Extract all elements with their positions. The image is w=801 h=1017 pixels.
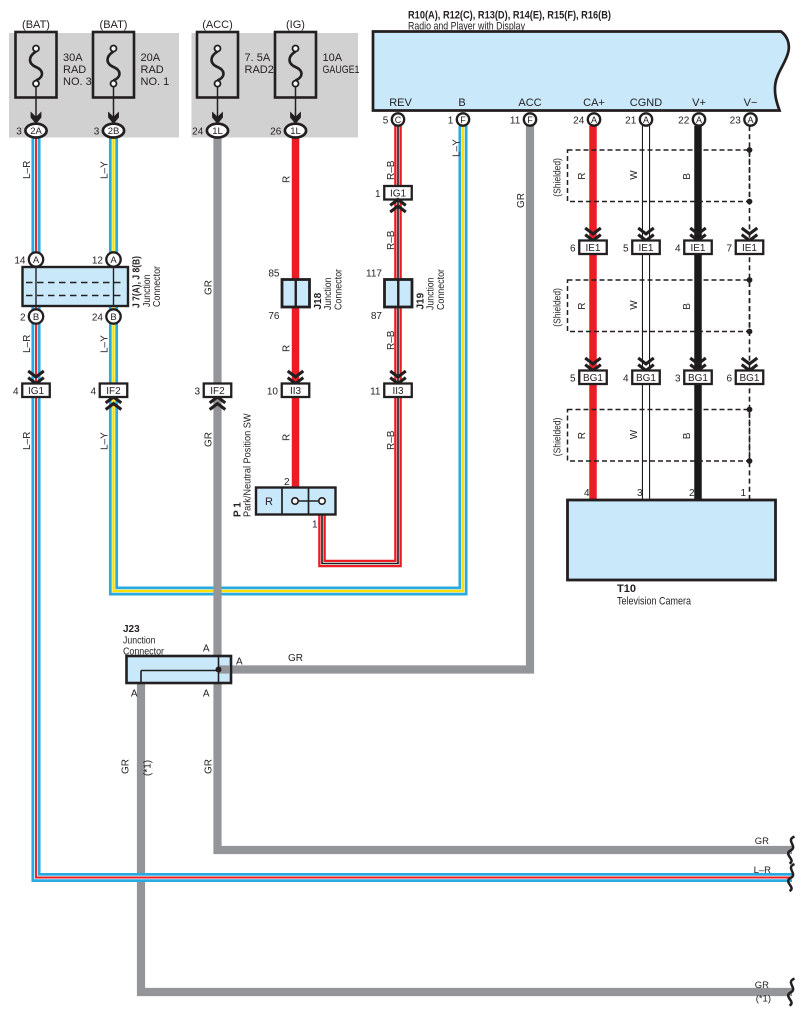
component R10 Radio and Player with Display [373, 32, 789, 111]
wire W shielded CGND to camera pin 3 [642, 126, 650, 501]
svg-text:A: A [643, 115, 649, 125]
svg-text:(BAT): (BAT) [22, 19, 50, 31]
svg-text:R: R [577, 432, 588, 439]
svg-text:(*1): (*1) [143, 760, 154, 776]
svg-text:3: 3 [94, 126, 100, 137]
wire L-Y from fuse 2B to radio pin B [114, 126, 464, 591]
svg-text:L–Y: L–Y [452, 139, 463, 157]
connector 3 BG1 [690, 358, 706, 364]
svg-text:5: 5 [623, 243, 629, 254]
svg-text:L–Y: L–Y [100, 432, 111, 450]
svg-text:Television Camera: Television Camera [617, 596, 692, 608]
svg-text:R: R [282, 434, 293, 441]
svg-text:Junction: Junction [123, 636, 156, 647]
svg-text:21: 21 [625, 116, 637, 127]
svg-text:6: 6 [726, 373, 732, 384]
svg-text:A: A [33, 255, 40, 266]
svg-text:B: B [458, 97, 465, 109]
svg-text:Radio and Player with Display: Radio and Player with Display [408, 20, 525, 32]
svg-text:B: B [110, 312, 116, 323]
connector 4 IF2 [106, 404, 122, 410]
svg-text:F: F [527, 115, 533, 125]
node junction dot J23 [216, 667, 222, 673]
connector 6 BG1 [742, 358, 758, 364]
svg-text:GR: GR [288, 653, 303, 664]
svg-text:3: 3 [194, 386, 200, 397]
shield box 2 [568, 280, 750, 332]
svg-text:30A: 30A [63, 52, 83, 64]
svg-text:14: 14 [14, 255, 26, 266]
wire fuse output arrow [295, 87, 297, 118]
svg-text:W: W [629, 170, 640, 180]
svg-text:II3: II3 [392, 386, 404, 397]
svg-text:IE1: IE1 [742, 243, 757, 254]
svg-text:R: R [577, 303, 588, 310]
svg-text:2A: 2A [30, 126, 42, 137]
pin 12 (A) of J7 [106, 252, 120, 266]
svg-text:(Shielded): (Shielded) [553, 418, 564, 457]
svg-text:A: A [203, 689, 210, 700]
connector 4 IG1 [28, 371, 44, 377]
fuse 7. 5A RAD2 [197, 32, 238, 98]
harness continuation squiggle GR [788, 837, 794, 864]
svg-text:1L: 1L [212, 126, 223, 137]
svg-text:IE1: IE1 [638, 243, 653, 254]
svg-text:3: 3 [637, 488, 643, 499]
svg-text:T10: T10 [617, 583, 636, 595]
svg-text:(IG): (IG) [286, 19, 305, 31]
svg-text:5: 5 [570, 373, 576, 384]
wire fuse output arrow [35, 87, 37, 118]
fuse panel background right [192, 33, 359, 138]
svg-text:24: 24 [573, 116, 585, 127]
svg-text:117: 117 [366, 268, 382, 279]
svg-text:A: A [203, 644, 210, 655]
junction connector J18 [282, 280, 310, 308]
svg-text:4: 4 [13, 386, 19, 397]
svg-text:Connector: Connector [334, 268, 345, 310]
wire fuse output arrow [217, 87, 219, 118]
connector 5 IE1 [638, 228, 654, 234]
wire GR branch from J23 to right edge (*1) [141, 681, 792, 992]
fuse 30A RAD NO. 3 [16, 32, 57, 98]
svg-text:85: 85 [268, 268, 280, 279]
svg-text:IF2: IF2 [106, 386, 121, 397]
connector pin 1 (F) of radio [457, 113, 469, 125]
shield box 3 [568, 410, 750, 462]
wire R from fuse 1L(IG) to P1 pin 2 [292, 136, 300, 489]
svg-text:4: 4 [675, 243, 681, 254]
svg-text:A: A [131, 689, 138, 700]
svg-text:II3: II3 [290, 386, 302, 397]
connector 1 IG1 [384, 186, 412, 200]
harness continuation squiggle L-R [788, 864, 794, 891]
svg-text:4: 4 [90, 386, 96, 397]
svg-text:(Shielded): (Shielded) [553, 288, 564, 327]
svg-text:NO. 1: NO. 1 [141, 76, 170, 88]
connector pin 24 (A) of radio [588, 113, 600, 125]
connector pin 26 1L [285, 124, 306, 138]
wire shield drain V- to camera pin 1 [749, 126, 751, 501]
svg-text:BG1: BG1 [636, 373, 656, 384]
svg-text:CGND: CGND [630, 97, 662, 109]
svg-text:RAD: RAD [63, 64, 86, 76]
svg-text:4: 4 [623, 373, 629, 384]
wire GR from radio pin ACC to J23 [220, 126, 530, 670]
svg-text:1L: 1L [290, 126, 301, 137]
svg-text:A: A [591, 115, 597, 125]
svg-text:W: W [629, 429, 640, 439]
switch P1 Park/Neutral Position SW [256, 488, 336, 515]
connector 6 IE1 [585, 228, 601, 234]
svg-text:Connector: Connector [123, 647, 165, 658]
svg-text:L–Y: L–Y [100, 161, 111, 179]
svg-text:7: 7 [726, 243, 732, 254]
connector 5 BG1 [585, 358, 601, 364]
svg-text:24: 24 [92, 312, 104, 323]
svg-text:B: B [33, 312, 39, 323]
svg-text:NO. 3: NO. 3 [63, 76, 92, 88]
svg-text:R–B: R–B [386, 160, 397, 180]
svg-text:2: 2 [689, 488, 695, 499]
connector 10 II3 [288, 371, 304, 377]
svg-text:RAD2: RAD2 [245, 64, 274, 76]
svg-text:L–Y: L–Y [100, 335, 111, 353]
svg-text:10A: 10A [323, 52, 343, 64]
connector 4 IE1 [690, 228, 706, 234]
svg-text:(ACC): (ACC) [202, 19, 233, 31]
svg-text:1: 1 [375, 189, 381, 200]
wire R shielded CA+ to camera pin 4 [589, 126, 597, 501]
svg-text:1: 1 [448, 116, 454, 127]
svg-text:11: 11 [510, 116, 521, 127]
shield box 1 [568, 150, 750, 202]
svg-text:Junction: Junction [323, 278, 334, 311]
svg-text:7. 5A: 7. 5A [245, 52, 271, 64]
wire fuse output arrow [113, 87, 115, 118]
svg-text:REV: REV [389, 97, 412, 109]
svg-text:Junction: Junction [426, 278, 437, 311]
svg-text:IE1: IE1 [585, 243, 600, 254]
wire B shielded V+ to camera pin 2 [694, 126, 702, 501]
svg-text:CA+: CA+ [583, 97, 605, 109]
wire GR from fuse 1L(ACC) through J23 to right edge [218, 136, 793, 850]
pin 14 (A) of J7 [29, 252, 43, 266]
svg-text:A: A [747, 115, 753, 125]
connector pin 3 2B [103, 124, 124, 138]
connector 11 II3 [390, 371, 406, 377]
connector pin 11 (F) of radio [524, 113, 536, 125]
svg-text:2: 2 [20, 312, 26, 323]
svg-text:BG1: BG1 [583, 373, 603, 384]
svg-text:J23: J23 [123, 624, 140, 635]
svg-text:GR: GR [121, 759, 132, 774]
connector pin 5 (C) of radio [392, 113, 404, 125]
svg-text:IE1: IE1 [690, 243, 705, 254]
svg-text:R–B: R–B [386, 230, 397, 250]
component T10 Television Camera [568, 500, 776, 580]
svg-text:R–B: R–B [386, 430, 397, 450]
connector pin 22 (A) of radio [693, 113, 705, 125]
svg-text:26: 26 [270, 126, 282, 137]
connector 7 IE1 [742, 228, 758, 234]
svg-text:L–R: L–R [22, 432, 33, 450]
svg-text:76: 76 [268, 311, 280, 322]
svg-text:(Shielded): (Shielded) [553, 158, 564, 197]
svg-text:L–R: L–R [22, 335, 33, 353]
connector pin 23 (A) of radio [744, 113, 756, 125]
svg-text:(BAT): (BAT) [100, 19, 128, 31]
svg-text:GR: GR [204, 759, 215, 774]
junction connector J19 [385, 280, 413, 308]
svg-text:12: 12 [92, 255, 104, 266]
svg-text:B: B [682, 432, 693, 439]
svg-text:3: 3 [675, 373, 681, 384]
pin 24 (B) of J8 [106, 309, 120, 323]
svg-text:5: 5 [383, 116, 389, 127]
svg-text:87: 87 [371, 311, 383, 322]
svg-text:1: 1 [740, 488, 746, 499]
svg-text:22: 22 [678, 116, 690, 127]
svg-text:GR: GR [204, 432, 215, 447]
svg-text:10: 10 [267, 386, 279, 397]
svg-text:V+: V+ [692, 97, 706, 109]
fuse 20A RAD NO. 1 [93, 32, 134, 98]
svg-text:3: 3 [16, 126, 22, 137]
svg-text:4: 4 [584, 488, 590, 499]
svg-text:GR: GR [755, 836, 769, 847]
svg-text:Connector: Connector [152, 265, 163, 307]
svg-text:6: 6 [570, 243, 576, 254]
svg-text:C: C [395, 115, 402, 125]
connector pin 24 1L [207, 124, 228, 138]
svg-text:GAUGE1: GAUGE1 [323, 64, 360, 76]
connector 4 BG1 [638, 358, 654, 364]
svg-text:J 7(A), J 8(B): J 7(A), J 8(B) [132, 256, 143, 308]
harness continuation squiggle GR (*1) [788, 979, 794, 1006]
svg-text:F: F [460, 115, 466, 125]
svg-text:R–B: R–B [386, 330, 397, 350]
svg-text:A: A [696, 115, 702, 125]
svg-text:20A: 20A [141, 52, 161, 64]
svg-text:R: R [282, 176, 293, 183]
svg-text:W: W [629, 300, 640, 310]
junction connector J23 [127, 656, 232, 683]
wire L-R from fuse 2A to right edge [36, 136, 792, 878]
svg-text:ACC: ACC [518, 97, 541, 109]
svg-text:24: 24 [192, 126, 204, 137]
svg-text:R: R [577, 173, 588, 180]
svg-text:GR: GR [755, 980, 769, 991]
svg-text:IG1: IG1 [390, 188, 407, 199]
svg-text:R: R [282, 345, 293, 352]
svg-text:1: 1 [312, 520, 318, 531]
pin 2 (B) of J8 [29, 309, 43, 323]
svg-text:BG1: BG1 [688, 373, 708, 384]
connector pin 21 (A) of radio [640, 113, 652, 125]
svg-text:V−: V− [744, 97, 758, 109]
fuse 10A GAUGE1 [275, 32, 316, 98]
connector 3 IF2 [210, 404, 226, 410]
svg-text:A: A [110, 255, 117, 266]
connector pin 3 2A [25, 124, 46, 138]
svg-text:IF2: IF2 [210, 386, 225, 397]
svg-text:R: R [265, 496, 273, 508]
svg-text:B: B [682, 303, 693, 310]
svg-text:2: 2 [284, 477, 290, 488]
svg-text:A: A [236, 657, 243, 668]
svg-text:Connector: Connector [436, 268, 447, 310]
svg-text:IG1: IG1 [28, 386, 45, 397]
svg-text:2B: 2B [108, 126, 120, 137]
svg-text:RAD: RAD [141, 64, 164, 76]
fuse panel background left [9, 33, 179, 138]
wire R-B from radio pin REV to P1 pin 1 [322, 126, 398, 564]
svg-text:11: 11 [370, 386, 381, 397]
svg-text:L–R: L–R [754, 865, 772, 876]
svg-text:BG1: BG1 [739, 373, 759, 384]
svg-text:GR: GR [516, 193, 527, 208]
svg-text:Park/Neutral Position SW: Park/Neutral Position SW [243, 413, 254, 517]
svg-text:B: B [682, 173, 693, 180]
junction connector J7(A), J8(B) [23, 267, 129, 306]
svg-text:GR: GR [204, 280, 215, 295]
svg-text:L–R: L–R [22, 161, 33, 179]
svg-text:23: 23 [730, 116, 742, 127]
svg-text:(*1): (*1) [756, 994, 771, 1005]
